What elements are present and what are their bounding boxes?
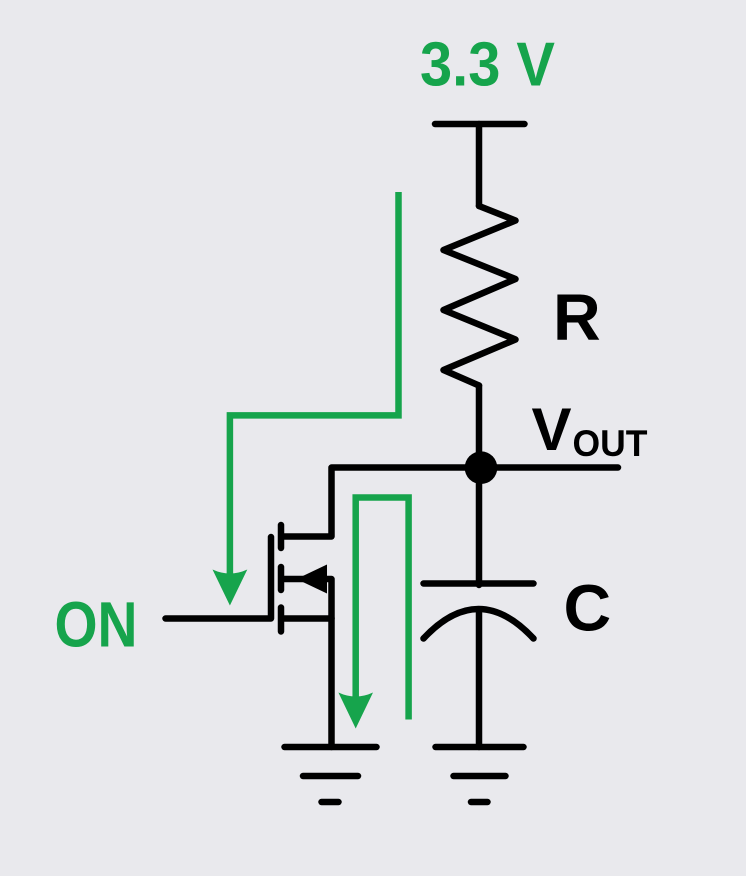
svg-text:R: R [553, 280, 601, 354]
svg-text:ON: ON [55, 589, 138, 661]
svg-text:OUT: OUT [573, 423, 648, 464]
svg-text:3.3 V: 3.3 V [420, 31, 555, 100]
svg-text:V: V [532, 396, 572, 463]
svg-text:C: C [564, 571, 612, 645]
